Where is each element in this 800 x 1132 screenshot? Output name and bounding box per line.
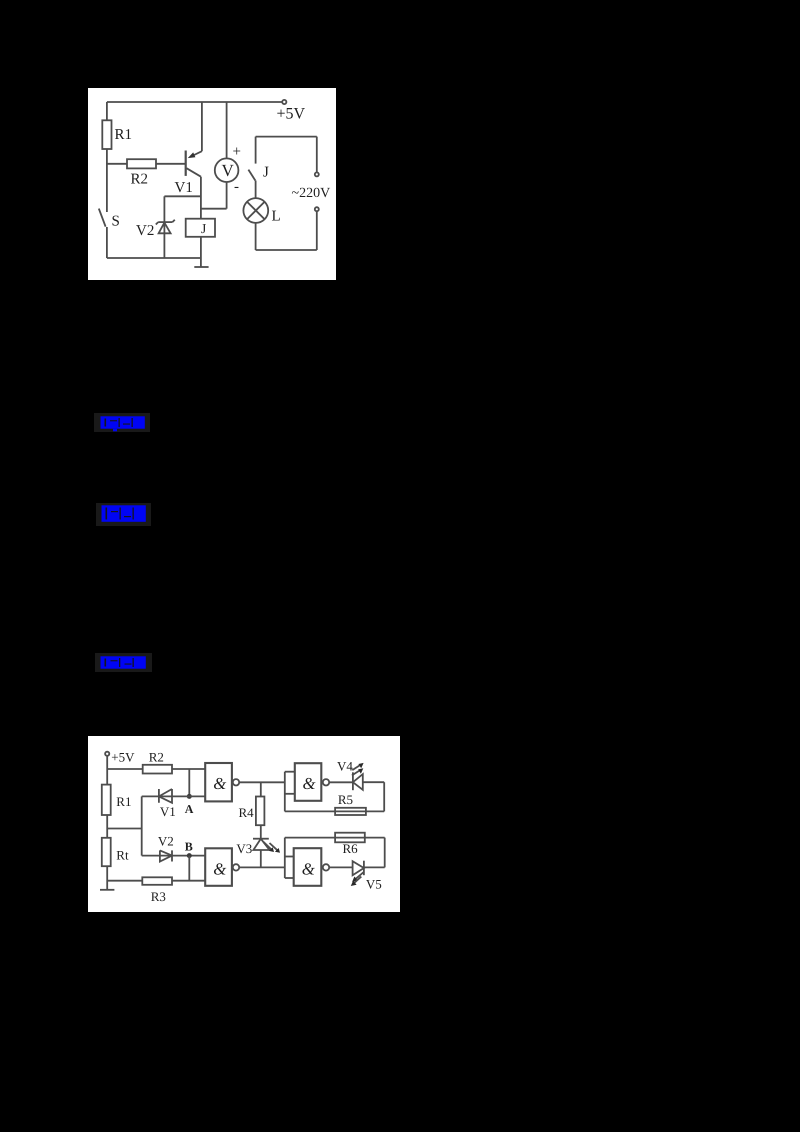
- svg-text:V3: V3: [236, 841, 252, 856]
- svg-text:S: S: [112, 214, 120, 230]
- svg-text:&: &: [213, 859, 226, 878]
- svg-text:L: L: [272, 209, 281, 225]
- svg-text:+5V: +5V: [111, 750, 135, 765]
- svg-text:R4: R4: [239, 805, 255, 820]
- svg-text:V: V: [222, 161, 235, 180]
- svg-text:R1: R1: [115, 127, 133, 143]
- svg-text:R6: R6: [343, 841, 359, 856]
- svg-text:&: &: [302, 859, 315, 878]
- svg-text:B: B: [185, 840, 193, 854]
- svg-text:R5: R5: [338, 792, 353, 807]
- svg-text:+: +: [233, 144, 241, 160]
- svg-text:R1: R1: [116, 794, 131, 809]
- svg-text:J: J: [201, 221, 206, 236]
- svg-text:-: -: [234, 179, 239, 195]
- svg-text:V1: V1: [160, 804, 176, 819]
- svg-text:V5: V5: [366, 877, 382, 892]
- svg-text:&: &: [213, 774, 226, 793]
- svg-text:Rt: Rt: [116, 848, 129, 863]
- svg-text:V2: V2: [136, 223, 154, 239]
- svg-text:J: J: [263, 165, 269, 181]
- svg-text:&: &: [303, 774, 316, 793]
- svg-text:V1: V1: [175, 180, 193, 196]
- svg-text:R2: R2: [131, 172, 149, 188]
- svg-text:~220V: ~220V: [292, 186, 331, 201]
- svg-text:R3: R3: [151, 889, 166, 904]
- svg-text:R2: R2: [149, 750, 164, 765]
- svg-text:+5V: +5V: [277, 106, 306, 123]
- svg-text:V2: V2: [158, 834, 174, 849]
- svg-text:V4: V4: [337, 759, 353, 774]
- svg-text:A: A: [185, 802, 194, 816]
